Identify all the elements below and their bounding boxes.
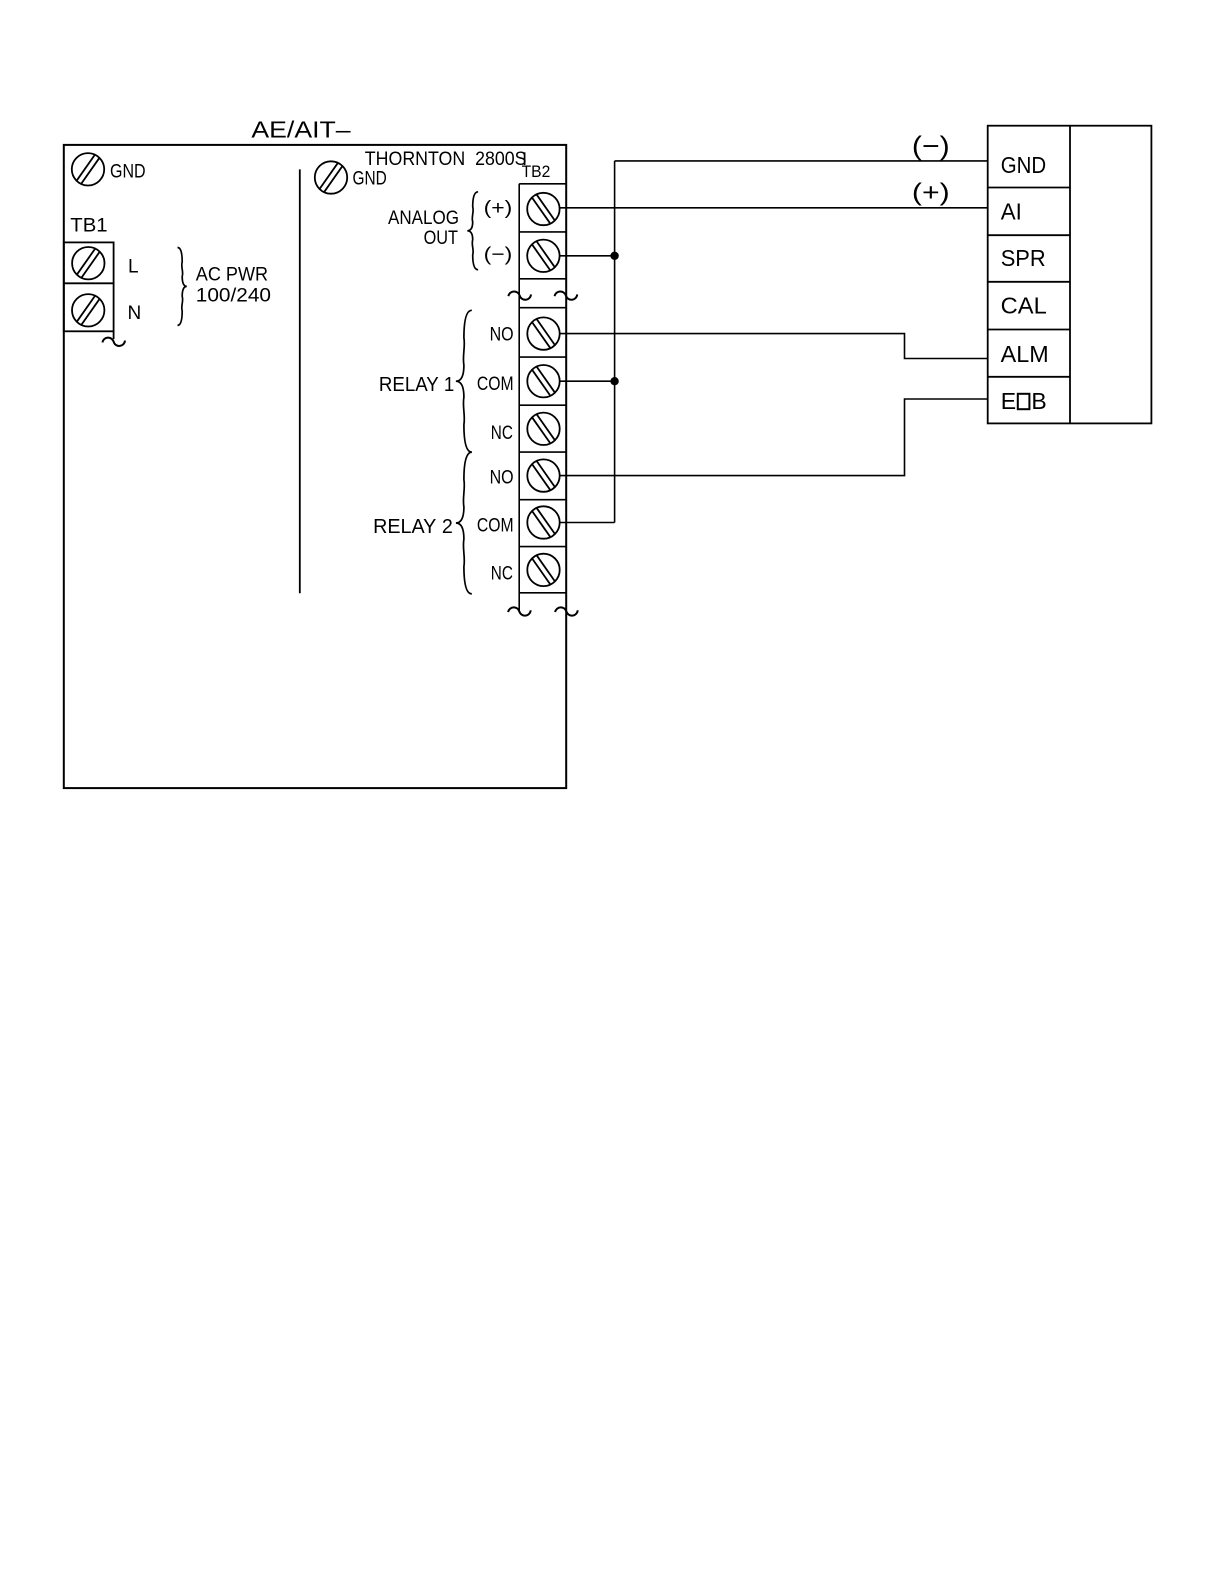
screw terminal TB2 relay2 COM: [527, 506, 559, 538]
svg-text:NC: NC: [491, 422, 513, 444]
screw terminal TB1-N: [72, 294, 104, 326]
svg-text:GND: GND: [353, 169, 387, 190]
break squiggle TB2 top-left: [508, 291, 531, 299]
svg-text:(+): (+): [484, 198, 513, 219]
svg-text:RELAY 2: RELAY 2: [373, 516, 453, 538]
svg-text:RELAY 1: RELAY 1: [379, 374, 454, 396]
screw terminal TB2 analog (-): [527, 240, 559, 272]
svg-text:NO: NO: [490, 324, 514, 346]
wire common bus vertical: [614, 161, 616, 523]
svg-text:AE/AIT–: AE/AIT–: [251, 117, 350, 143]
svg-text:GND: GND: [110, 161, 146, 182]
svg-text:(+): (+): [912, 178, 950, 206]
svg-text:COM: COM: [477, 373, 514, 395]
screw terminal TB2 analog (+): [527, 193, 559, 225]
junction dot COM1/bus: [610, 377, 618, 385]
wire (-) analog out to common bus: [560, 255, 615, 257]
screw terminal TB2 relay1 COM: [527, 365, 559, 397]
svg-text:100/240: 100/240: [196, 285, 271, 306]
screw terminal TB2 relay1 NO: [527, 317, 559, 349]
svg-text:(−): (−): [912, 131, 950, 161]
svg-text:B: B: [1031, 388, 1046, 414]
svg-text:N: N: [128, 303, 142, 324]
svg-text:THORNTON 2800S: THORNTON 2800S: [365, 149, 527, 170]
controller terminal block outline: [988, 126, 1152, 424]
break squiggle TB2 bottom-left: [508, 607, 531, 615]
label EOB terminal: [1001, 388, 1047, 414]
svg-text:L: L: [128, 257, 139, 278]
break squiggle TB2 bottom-right: [555, 607, 578, 615]
ground screw GND (instrument section): [315, 161, 347, 193]
svg-text:AI: AI: [1001, 198, 1022, 224]
wire relay2 COM to common bus: [560, 522, 615, 524]
ground screw GND (power section): [72, 153, 104, 185]
svg-text:GND: GND: [1001, 152, 1046, 178]
wire relay2 NO to EOB terminal: [560, 399, 988, 476]
wire common bus to GND terminal: [615, 160, 988, 162]
svg-text:(−): (−): [484, 245, 513, 266]
svg-text:NO: NO: [490, 467, 514, 489]
svg-text:OUT: OUT: [424, 228, 459, 249]
wire (+) analog out to AI terminal: [560, 207, 988, 209]
svg-text:ALM: ALM: [1001, 341, 1049, 367]
screw terminal TB1-L: [72, 247, 104, 279]
enclosure AE/AIT outline: [64, 145, 566, 788]
svg-text:COM: COM: [477, 515, 514, 537]
brace analog out group: [467, 192, 478, 270]
svg-text:ANALOG: ANALOG: [388, 208, 459, 229]
svg-text:TB2: TB2: [522, 162, 551, 181]
screw terminal TB2 relay2 NO: [527, 459, 559, 491]
screw terminal TB2 relay2 NC: [527, 554, 559, 586]
terminal block TB1 outline: [64, 242, 114, 339]
break squiggle TB2 top-right: [555, 291, 578, 299]
wire relay1 COM to common bus: [560, 380, 615, 382]
wire relay1 NO to ALM terminal: [560, 334, 988, 359]
internal partition line: [299, 169, 301, 593]
svg-text:SPR: SPR: [1001, 245, 1046, 271]
screw terminal TB2 relay1 NC: [527, 413, 559, 445]
terminal strip TB2 outline: [519, 184, 566, 612]
svg-text:E: E: [1001, 388, 1016, 414]
svg-text:NC: NC: [491, 563, 513, 585]
label TB2 tall T stem tick: [524, 152, 526, 165]
junction dot (-)/bus: [610, 252, 618, 260]
brace relay 2 group: [456, 452, 472, 594]
brace relay 1 group: [456, 310, 472, 452]
svg-text:AC PWR: AC PWR: [196, 265, 268, 286]
svg-text:CAL: CAL: [1001, 293, 1047, 319]
svg-text:TB1: TB1: [70, 216, 107, 237]
brace AC power group: [178, 248, 187, 326]
break squiggle TB1: [102, 338, 125, 346]
